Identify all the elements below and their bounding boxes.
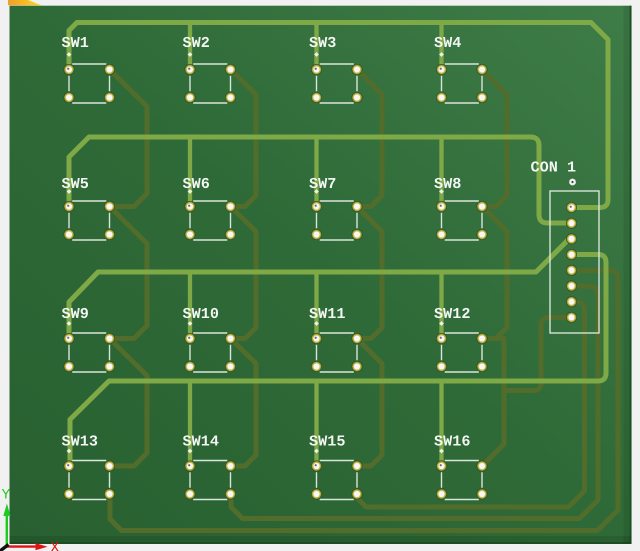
wire row 2 stub to SW8 xyxy=(439,137,443,207)
wire CON1 pin 7 to SW15 xyxy=(357,302,585,507)
wire row 1 stub to SW3 xyxy=(314,23,318,70)
wire column 1 link SW1 to SW5 xyxy=(110,70,148,207)
wire column 2 link SW6 to SW10 xyxy=(231,207,257,339)
switch SW13 xyxy=(62,435,115,499)
switch SW15 xyxy=(309,435,362,499)
switch SW7 xyxy=(309,178,362,240)
wire row 4 stub to SW14 xyxy=(188,381,192,466)
CON1 pin 1 pad xyxy=(566,202,577,213)
wire CON1 pin 6 to SW14 xyxy=(231,286,598,518)
wire row 2 stub to SW7 xyxy=(314,137,318,207)
switch SW16 xyxy=(434,435,487,499)
switch SW12 xyxy=(434,308,487,372)
Y axis arrow xyxy=(2,489,11,547)
wire CON1 pin 8 to column 4 xyxy=(504,318,572,391)
connector CON1 xyxy=(531,161,599,333)
wire column 2 link SW10 to SW14 xyxy=(231,339,257,467)
wire row 3 stub to SW10 xyxy=(188,272,192,339)
switch SW5 xyxy=(62,178,115,240)
CON1 pin 7 pad xyxy=(566,296,577,307)
wire row 1 stub to SW2 xyxy=(188,23,192,70)
origin marker xyxy=(0,545,9,551)
wire row 2 bus to CON1 pin 2 xyxy=(69,137,572,223)
switch SW9 xyxy=(62,308,115,372)
wire row 3 stub to SW12 xyxy=(439,272,443,339)
wire row 4 stub to SW16 xyxy=(439,381,443,466)
origin corner marker xyxy=(8,0,42,5)
switch SW11 xyxy=(309,308,362,372)
wire CON1 pin 5 to SW13 xyxy=(110,271,618,531)
CON1 pin 4 pad xyxy=(566,249,577,260)
wire row 4 bus to CON1 pin 4 xyxy=(70,255,606,467)
CON1 pin 8 pad xyxy=(566,312,577,323)
wire column 4 link SW4 to SW8 xyxy=(482,70,507,207)
wire row 3 bus to CON1 pin 3 xyxy=(69,237,572,339)
wire row 4 stub to SW15 xyxy=(314,381,318,466)
switch SW3 xyxy=(309,37,362,103)
wire row 2 stub to SW6 xyxy=(188,137,192,207)
switch SW8 xyxy=(434,178,487,240)
wire column 1 link SW9 to SW13 xyxy=(110,339,148,467)
switch SW1 xyxy=(62,37,115,103)
CON1 pin 2 pad xyxy=(566,218,577,229)
wire column 1 link SW5 to SW9 xyxy=(110,207,148,339)
X axis arrow xyxy=(6,542,59,551)
board edge shading xyxy=(10,536,632,544)
wire row 1 bus to CON1 pin 1 xyxy=(69,23,608,208)
switch SW4 xyxy=(434,37,487,103)
wire row 3 stub to SW11 xyxy=(314,272,318,339)
switch SW14 xyxy=(183,435,236,499)
CON1 pin 6 pad xyxy=(566,281,577,292)
CON1 pin 3 pad xyxy=(566,233,577,244)
switch SW2 xyxy=(183,37,236,103)
switch SW10 xyxy=(183,308,236,372)
CON1 pin 5 pad xyxy=(566,265,577,276)
wire column 3 link SW3 to SW7 xyxy=(357,70,382,207)
CON1 anchor xyxy=(569,179,576,186)
wire column 4 link SW8 to SW12 xyxy=(482,207,507,339)
wire column 2 link SW2 to SW6 xyxy=(231,70,257,207)
wire column 4 link SW12 to SW16 xyxy=(482,339,504,467)
wire column 3 link SW7 to SW11 xyxy=(357,207,382,339)
wire row 1 stub to SW4 xyxy=(439,23,443,70)
switch SW6 xyxy=(183,178,236,240)
wire column 3 link SW11 to SW15 xyxy=(357,339,382,467)
